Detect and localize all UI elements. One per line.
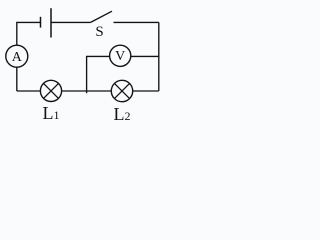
voltmeter V1 circle xyxy=(110,45,131,66)
lamp L1 cross xyxy=(44,83,59,98)
svg-text:V: V xyxy=(115,49,125,64)
battery cell E negative plate (short bar) xyxy=(40,17,42,28)
wire left vertical lower segment xyxy=(16,67,18,91)
ammeter A1 circle xyxy=(6,45,28,67)
wire lamp L1 to lamp L2 through node J xyxy=(62,90,111,92)
svg-text:A: A xyxy=(12,50,23,65)
wire voltmeter to right vertical xyxy=(131,55,159,57)
lamp L2 cross xyxy=(114,83,129,98)
svg-text:L1: L1 xyxy=(43,103,60,123)
wire lamp L2 to bottom-right corner xyxy=(133,90,159,92)
wire bottom-left to lamp L1 xyxy=(17,90,41,92)
lamp L2 circle xyxy=(111,80,132,101)
wire battery to switch xyxy=(51,21,91,23)
wire right vertical xyxy=(158,22,160,91)
lamp L1 circle xyxy=(40,80,61,101)
wire top-left corner and left vertical upper segment xyxy=(17,22,40,45)
wire voltmeter branch riser and horizontal xyxy=(87,56,110,91)
battery cell E positive plate (long bar) xyxy=(50,8,52,37)
svg-text:L2: L2 xyxy=(114,104,131,124)
node J junction stub xyxy=(86,91,88,93)
wire switch to top-right corner xyxy=(114,21,159,23)
svg-text:S: S xyxy=(95,24,103,40)
switch S blade (open) xyxy=(91,11,112,22)
